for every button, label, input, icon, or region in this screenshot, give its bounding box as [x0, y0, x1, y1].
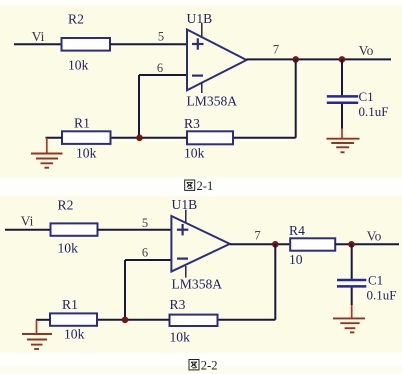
svg-text:0.1uF: 0.1uF: [367, 288, 397, 303]
resistor R3: [187, 131, 233, 144]
svg-text:R2: R2: [68, 12, 84, 27]
node junction output/feedback: [292, 56, 299, 63]
label C1 (bottom): [368, 273, 383, 288]
label LM358A: [187, 94, 238, 109]
svg-text:10k: 10k: [58, 241, 79, 256]
svg-text:10: 10: [289, 252, 303, 267]
pin 7 label (bottom): [254, 229, 260, 243]
label R2: [68, 12, 84, 27]
white top edge band: [0, 0, 402, 4]
value 0.1uF: [359, 104, 389, 119]
value 10k of R2 (bottom): [58, 241, 79, 256]
svg-text:R2: R2: [58, 198, 74, 213]
value 10k of R1 (bottom): [64, 327, 85, 342]
wire op-amp pin 6: [139, 74, 187, 76]
svg-text:LM358A: LM358A: [187, 94, 238, 109]
svg-text:6: 6: [157, 61, 163, 75]
svg-text:2-1: 2-1: [197, 179, 214, 193]
label R2 (bottom): [58, 198, 74, 213]
label R4: [289, 223, 305, 238]
node B junction R1/R3/pin6 (bottom): [122, 317, 129, 324]
svg-text:2-2: 2-2: [201, 359, 218, 373]
svg-text:R1: R1: [74, 116, 90, 131]
wire feedback riser down to R3 (bottom): [274, 244, 276, 319]
svg-text:U1B: U1B: [187, 11, 213, 26]
resistor R1 (bottom): [50, 313, 97, 325]
value 10 of R4: [289, 252, 303, 267]
svg-text:10k: 10k: [170, 330, 191, 345]
value 10k of R2: [68, 58, 89, 73]
svg-text:C1: C1: [368, 273, 383, 288]
svg-text:7: 7: [254, 229, 260, 243]
value 10k of R1: [76, 146, 97, 161]
wire R2 to op-amp pin 5 (bottom): [98, 229, 172, 231]
svg-text:C1: C1: [359, 89, 374, 104]
node Vo label (bottom): [367, 228, 382, 243]
svg-text:Vo: Vo: [367, 228, 382, 243]
pin 6 label (bottom): [142, 246, 148, 260]
label U1B (bottom): [172, 197, 198, 212]
node Vi label: [32, 29, 45, 44]
wire R2 to op-amp pin 5: [110, 43, 187, 45]
caption fig 2-1: [185, 179, 214, 193]
resistor R3 (bottom): [170, 315, 218, 326]
svg-text:R3: R3: [170, 297, 186, 312]
resistor R1: [62, 131, 111, 144]
svg-text:R4: R4: [289, 223, 305, 238]
value 0.1uF (bottom): [367, 288, 397, 303]
svg-text:Vi: Vi: [21, 214, 34, 229]
svg-text:10k: 10k: [184, 146, 205, 161]
resistor R2: [62, 38, 111, 51]
wire node B to R3 (bottom): [97, 319, 170, 321]
wire R3 right to feedback riser (bottom): [218, 319, 276, 321]
svg-text:Vo: Vo: [359, 43, 374, 58]
wire R1 left to ground (bottom): [36, 319, 50, 321]
svg-text:6: 6: [142, 246, 148, 260]
svg-text:R3: R3: [184, 116, 200, 131]
label R1 (bottom): [62, 297, 78, 312]
op-amp U1B: [187, 23, 247, 93]
wire Vi input to R2 (bottom): [5, 229, 51, 231]
wire R3 right to feedback riser: [233, 137, 296, 139]
label C1: [359, 89, 374, 104]
node Vo label (top): [359, 43, 374, 58]
svg-text:R1: R1: [62, 297, 78, 312]
capacitor C1 (top circuit): [327, 59, 358, 128]
node junction output/C1: [339, 56, 346, 63]
svg-text:U1B: U1B: [172, 197, 198, 212]
ground below C1 (bottom): [333, 305, 365, 332]
op-amp U1B (bottom): [171, 210, 229, 278]
wire Vi input to R2: [14, 43, 62, 45]
ground G2 (bottom left): [22, 320, 52, 349]
svg-text:10k: 10k: [64, 327, 85, 342]
resistor R2 (bottom): [51, 223, 98, 235]
pin 6 label: [157, 61, 163, 75]
wire R1 left to ground: [46, 137, 63, 139]
label R3 (bottom): [170, 297, 186, 312]
wire riser pin6 down to node A: [138, 75, 140, 138]
svg-text:5: 5: [158, 30, 164, 44]
node junction R4/C1: [348, 241, 355, 248]
pin 7 label: [273, 43, 279, 57]
value 10k of R3 (bottom): [170, 330, 191, 345]
label R3: [184, 116, 200, 131]
label U1B: [187, 11, 213, 26]
svg-text:10k: 10k: [76, 146, 97, 161]
node A junction R1/R3/pin6: [136, 135, 143, 142]
wire op-amp output to Vo: [247, 58, 392, 60]
wire R4 to Vo: [335, 243, 399, 245]
label R1: [74, 116, 90, 131]
svg-text:7: 7: [273, 43, 279, 57]
pin 5 label: [158, 30, 164, 44]
ground G1: [31, 138, 63, 168]
wire riser pin6 down to node B: [124, 260, 126, 320]
svg-text:5: 5: [142, 216, 148, 230]
wire node A to R3: [111, 137, 187, 139]
node junction output/feedback (bottom): [272, 241, 279, 248]
pin 5 label (bottom): [142, 216, 148, 230]
capacitor C1 (bottom circuit): [337, 244, 366, 305]
caption fig 2-2: [189, 359, 218, 373]
wire op-amp pin 6 (bottom): [125, 259, 171, 261]
svg-text:LM358A: LM358A: [172, 277, 223, 292]
value 10k of R3: [184, 146, 205, 161]
svg-text:10k: 10k: [68, 58, 89, 73]
node Vi label (bottom): [21, 214, 34, 229]
svg-text:Vi: Vi: [32, 29, 45, 44]
wire feedback riser down to R3: [295, 59, 297, 137]
wire op-amp output to R4: [230, 243, 290, 245]
white caption band 2: [0, 353, 402, 367]
svg-text:0.1uF: 0.1uF: [359, 104, 389, 119]
label LM358A (bottom): [172, 277, 223, 292]
white caption band 1: [0, 178, 402, 197]
resistor R4: [290, 238, 335, 250]
ground below C1: [327, 129, 360, 153]
